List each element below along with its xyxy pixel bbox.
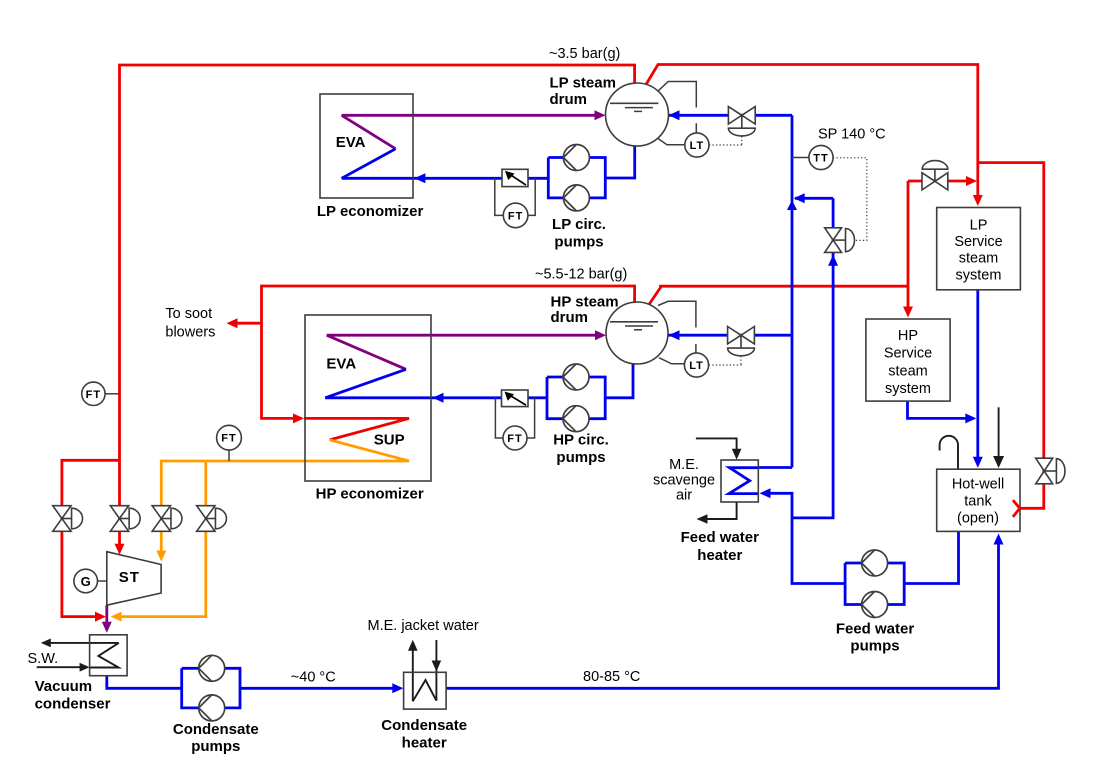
arrow: make-up water into hot-well tank [993, 456, 1004, 468]
wire: superheater coil red section [304, 418, 409, 440]
wire: branch to soot blowers [233, 322, 262, 325]
svg-text:pumps: pumps [191, 738, 240, 755]
arrow: control valve branch joins feed line [794, 193, 805, 203]
svg-text:Feed water: Feed water [836, 620, 915, 637]
svg-text:pumps: pumps [556, 449, 605, 466]
arrow: sea water out of condenser [41, 639, 51, 648]
wire: feed water pumps parallel loop [845, 563, 904, 605]
svg-text:Service: Service [884, 346, 932, 362]
svg-text:drum: drum [550, 91, 588, 108]
wire: HP circ pump discharge to HP economizer [325, 396, 547, 399]
wire: feed water heater coil [729, 468, 758, 494]
svg-text:LP economizer: LP economizer [317, 203, 424, 220]
wire: feed pump discharge to feed water heater [765, 493, 845, 583]
svg-text:80-85 °C: 80-85 °C [583, 669, 640, 685]
wire: LP evaporator coil upper (steam/water mixture) [342, 115, 396, 149]
arrow: steam/water into HP drum [595, 330, 606, 340]
arrow: feed water into LP drum [669, 110, 680, 120]
wire: heated condensate 80-85 C to hot-well tank [446, 539, 998, 688]
svg-text:air: air [676, 488, 692, 504]
svg-text:system: system [956, 267, 1002, 283]
LP steam drum [606, 83, 669, 146]
arrow: sea water into condenser [80, 663, 90, 672]
pump: LP circ pump 2 [563, 185, 589, 211]
hot-well tank vent pipe [940, 436, 958, 469]
arrow: feed water into feed water heater [760, 488, 771, 498]
wire: HP service condensate return [908, 401, 972, 418]
wire: HP evaporator coil upper (steam/water mixture) [327, 335, 406, 369]
arrow: HP service return joins [965, 413, 976, 423]
svg-text:LP: LP [970, 218, 988, 234]
steam turbine ST [107, 552, 161, 606]
valve: turbine bypass valve [197, 506, 227, 532]
wire: LP evaporator outlet to LP steam drum [342, 114, 598, 117]
svg-text:(open): (open) [957, 511, 999, 527]
wire: condensate pumps parallel loop [182, 668, 240, 708]
wire: sea water outlet from condenser [47, 642, 119, 644]
svg-text:LT: LT [689, 360, 704, 372]
wire: HP circ pump suction from HP drum [605, 364, 633, 398]
wire: HP steam main from HP drum to HP service [648, 286, 908, 306]
svg-text:M.E.: M.E. [669, 457, 699, 473]
instrument LT (HP drum level) [684, 353, 708, 377]
instrument LT (LP drum level) [685, 133, 709, 157]
LP Service steam system box [937, 208, 1021, 290]
svg-text:HP economizer: HP economizer [316, 485, 424, 502]
svg-text:~5.5-12 bar(g): ~5.5-12 bar(g) [535, 267, 627, 283]
svg-text:Hot-well: Hot-well [952, 477, 1004, 493]
wire: FT tap on LP steam line [105, 393, 119, 395]
pump: feed water pump 1 [862, 550, 888, 576]
wire: LP service condensate return to hot-well [976, 290, 979, 462]
wire: make-up water to hot-well tank [998, 407, 1000, 458]
vacuum condenser coil [90, 643, 119, 668]
svg-text:EVA: EVA [326, 356, 356, 373]
wire: HP steam main from HP drum to superheater inlet [262, 286, 635, 418]
wire: LP flow transmitter bracket left [495, 178, 504, 215]
valve: hot-well heating steam valve [1036, 458, 1065, 484]
svg-text:drum: drum [551, 309, 589, 326]
svg-text:SUP: SUP [374, 431, 405, 448]
wire: feed control valve line [792, 198, 833, 518]
vacuum condenser box [90, 635, 128, 676]
svg-text:blowers: blowers [165, 325, 215, 341]
svg-text:heater: heater [402, 734, 447, 751]
wire: M.E. scavenge air inlet [696, 438, 737, 452]
arrow: scavenge air out [697, 514, 708, 524]
svg-text:Condensate: Condensate [381, 717, 467, 734]
wire: HP flow transmitter bracket left [495, 398, 503, 438]
valve: turbine HP steam inlet valve [152, 506, 182, 532]
wire: TT sensing connection [791, 157, 809, 159]
HP steam drum [606, 302, 668, 364]
wire: LP circ pump suction from LP drum [605, 146, 634, 178]
instrument FT (superheated steam flow) [217, 425, 242, 450]
wire: turbine exhaust to vacuum condenser [105, 605, 108, 626]
LP economizer box [320, 94, 413, 198]
svg-text:~3.5 bar(g): ~3.5 bar(g) [549, 46, 620, 62]
wire: M.E. jacket water return (up) [412, 647, 414, 701]
valve: LP drum feed control (diaphragm) [728, 107, 755, 136]
pump: LP circ pump 1 [563, 145, 589, 171]
arrow: reduced HP steam into LP service line [966, 176, 977, 186]
wire: HP to LP steam reducing line [908, 180, 971, 183]
pump: condensate pump 1 [199, 655, 225, 681]
valve: LP steam dump valve [53, 506, 83, 532]
pump: HP circ pump 2 [563, 406, 589, 432]
wire: feed water riser main [791, 115, 794, 467]
HP circ flow element [502, 390, 529, 407]
arrow: LP steam into condenser mix point [95, 612, 106, 622]
svg-text:tank: tank [964, 494, 992, 510]
arrow: steam/water into LP drum [595, 110, 606, 120]
arrow: condensate into hot-well tank [994, 534, 1004, 545]
arrow: HP steam into HP service system [903, 307, 913, 318]
svg-text:G: G [81, 574, 91, 589]
wire: sea water inlet to condenser [37, 666, 83, 668]
instrument FT (HP circ flow) [503, 426, 527, 450]
svg-text:Service: Service [954, 234, 1002, 250]
wire: feed water to LP steam drum [669, 114, 793, 117]
arrow: condensate into condensate heater [392, 683, 403, 693]
arrow: LP steam into LP service system [973, 195, 983, 206]
svg-text:Condensate: Condensate [173, 721, 259, 738]
wire: LP flow transmitter bracket right [528, 178, 535, 215]
wire: LP drum level tap lower to LT [658, 138, 685, 144]
svg-text:FT: FT [507, 433, 522, 445]
wire: LP steam main from LP drum to LP service system [646, 65, 978, 201]
hot-well tank box [937, 469, 1020, 531]
svg-text:To soot: To soot [165, 306, 212, 322]
wire: HP circ pumps parallel loop [547, 377, 605, 419]
pump: condensate pump 2 [199, 695, 225, 721]
instrument FT (LP steam flow) [82, 382, 105, 405]
svg-text:scavenge: scavenge [653, 473, 715, 489]
wire: feed pump suction from hot-well tank [904, 531, 958, 583]
wire: LP circ pumps parallel loop [548, 158, 605, 198]
instrument FT (LP circ flow) [503, 203, 528, 228]
wire: HP flow transmitter bracket right [527, 398, 535, 438]
condensate heater coil [413, 680, 437, 701]
svg-text:Vacuum: Vacuum [35, 678, 93, 695]
valve: turbine LP steam inlet valve [110, 506, 140, 532]
svg-text:Feed water: Feed water [681, 529, 760, 546]
wire: condensate to condensate heater ~40 C [240, 687, 398, 690]
HP Service steam system box [866, 319, 950, 401]
arrow: jacket water in [432, 661, 442, 672]
wire: LP circ pump discharge to LP economizer [342, 177, 549, 180]
wire: superheated steam from SUP coil to turbine [161, 440, 409, 556]
wire: LP evaporator coil lower (water) [342, 149, 396, 179]
arrow: exhaust steam into vacuum condenser [102, 622, 112, 633]
svg-text:SP 140 °C: SP 140 °C [818, 127, 886, 143]
svg-text:ST: ST [119, 569, 140, 586]
svg-text:FT: FT [508, 210, 523, 222]
wire: LP steam main from LP drum top, left and down west side [120, 65, 635, 548]
feed water heater box [721, 460, 758, 502]
arrow: feed water into HP drum [669, 330, 680, 340]
arrow: superheated steam into turbine [156, 551, 166, 562]
svg-text:FT: FT [221, 433, 236, 445]
LP circ flow element [502, 169, 528, 186]
svg-text:HP circ.: HP circ. [553, 432, 609, 449]
arrow: LP service return into hot-well tank [973, 457, 983, 468]
svg-text:LT: LT [690, 140, 705, 152]
pump: HP circ pump 1 [563, 364, 589, 390]
wire: HP evaporator outlet to HP steam drum [327, 334, 599, 337]
valve: HP drum feed control (diaphragm) [728, 327, 755, 356]
svg-text:HP: HP [898, 328, 918, 344]
wire: LT2 signal to HP feed valve (dotted) [709, 364, 742, 366]
svg-text:LP steam: LP steam [550, 75, 616, 92]
wire: generator shaft to turbine [98, 580, 107, 582]
wire: M.E. scavenge air outlet [703, 502, 737, 519]
wire: HP drum level tap lower to LT [659, 358, 684, 364]
wire: HP drum level tap upper [658, 301, 696, 327]
svg-text:HP steam: HP steam [551, 293, 619, 310]
wire: feed control branch to LP drum line [795, 197, 833, 200]
svg-text:~40 °C: ~40 °C [291, 670, 336, 686]
arrow: circ water into LP economizer [414, 173, 425, 183]
svg-text:steam: steam [888, 363, 928, 379]
arrow: feed water up riser [787, 200, 797, 210]
svg-text:pumps: pumps [850, 637, 899, 654]
wire: TT signal to temperature control valve (dotted) [833, 158, 867, 241]
arrow: scavenge air in [732, 449, 742, 460]
arrow: steam heating into hot-well tank (crossed arrow) [1013, 500, 1020, 517]
arrow: jacket water out [408, 640, 418, 651]
arrow: LP steam into turbine [115, 544, 125, 555]
wire: M.E. jacket water supply (down) [435, 640, 437, 701]
arrow: HP steam into superheater [293, 413, 304, 423]
wire: feed water to HP steam drum [669, 334, 793, 337]
svg-text:S.W.: S.W. [28, 651, 59, 667]
svg-text:FT: FT [86, 389, 101, 401]
wire: HP steam riser to reducing valve and HP service system [907, 181, 910, 312]
svg-text:system: system [885, 381, 931, 397]
wire: HP drum level tap upper below pipe [695, 344, 697, 353]
wire: LP steam branch to condenser dump [62, 460, 120, 616]
arrow: feed water up into control valve [828, 255, 838, 266]
svg-text:pumps: pumps [554, 234, 603, 251]
svg-text:heater: heater [697, 547, 742, 564]
HP economizer box [305, 315, 431, 481]
wire: FT tap on superheated steam line [228, 450, 230, 461]
svg-text:LP circ.: LP circ. [552, 216, 606, 233]
wire: superheated steam turbine bypass to condenser [117, 461, 206, 617]
arrow: superheated steam bypass into condenser mix point [111, 612, 122, 622]
wire: LT1 signal to LP feed valve (dotted) [709, 144, 742, 146]
wire: LP drum level tap upper [658, 82, 696, 108]
svg-text:steam: steam [959, 251, 999, 267]
svg-text:M.E. jacket water: M.E. jacket water [368, 618, 479, 634]
valve: HP/LP reducing valve (diaphragm above) [922, 161, 948, 190]
arrow: circ water into HP economizer [433, 393, 444, 403]
wire: feed water heater outlet line [758, 466, 792, 469]
arrow: to soot blowers [227, 318, 238, 328]
svg-text:EVA: EVA [336, 134, 366, 151]
instrument TT (feed temperature) [809, 145, 833, 169]
wire: LP drum level tap upper below pipe [695, 123, 697, 133]
generator G [74, 569, 98, 593]
wire: HP evaporator coil lower (water) [325, 369, 406, 398]
wire: condensate from vacuum condenser to condensate pumps [107, 676, 182, 689]
svg-text:condenser: condenser [35, 695, 111, 712]
pump: feed water pump 2 [862, 592, 888, 618]
condensate heater box [404, 672, 447, 709]
svg-text:TT: TT [813, 153, 828, 165]
wire: LP steam branch down east side to hot-well tank [978, 163, 1044, 509]
valve: feed temperature control valve [825, 228, 855, 253]
